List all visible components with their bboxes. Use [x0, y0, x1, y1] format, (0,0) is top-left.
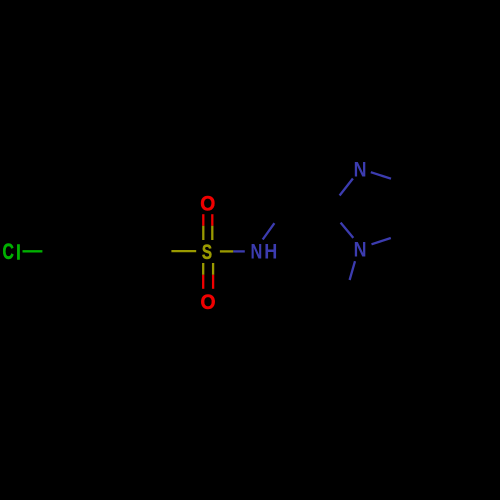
svg-text:H: H	[264, 240, 277, 264]
svg-text:N: N	[251, 241, 263, 265]
svg-text:O: O	[201, 291, 216, 314]
svg-text:N: N	[354, 238, 367, 262]
svg-text:C: C	[3, 241, 15, 265]
svg-text:S: S	[202, 240, 212, 264]
svg-text:O: O	[200, 193, 215, 216]
svg-text:N: N	[354, 158, 367, 182]
svg-text:l: l	[16, 241, 21, 264]
